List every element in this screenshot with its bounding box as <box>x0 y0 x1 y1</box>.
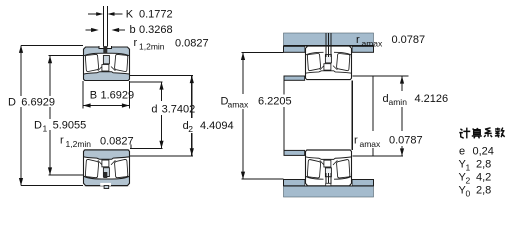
housing band top <box>284 33 374 46</box>
dimension K <box>88 13 97 15</box>
shaft shoulder face line <box>283 76 285 95</box>
leader tick to corner <box>130 145 132 150</box>
svg-text:d: d <box>151 104 157 116</box>
svg-text:0,24: 0,24 <box>473 146 494 158</box>
svg-text:1: 1 <box>43 123 48 133</box>
shaft shoulder top <box>284 76 305 80</box>
dimension d leader <box>130 81 163 83</box>
svg-text:6.6929: 6.6929 <box>21 97 55 109</box>
dimension b <box>86 29 93 31</box>
系 <box>484 128 492 137</box>
svg-text:4.2126: 4.2126 <box>415 93 449 105</box>
svg-text:amax: amax <box>228 100 250 110</box>
svg-text:e: e <box>459 146 465 158</box>
svg-text:1: 1 <box>466 163 471 173</box>
svg-text:r: r <box>134 37 138 49</box>
lubrication lines bottom (right) <box>325 173 327 184</box>
svg-text:amax: amax <box>360 139 382 149</box>
right bearing top half (outline style) <box>306 46 352 80</box>
bearing top half (left drawing) <box>83 46 130 81</box>
svg-text:2,8: 2,8 <box>476 185 491 197</box>
svg-text:D: D <box>8 97 16 109</box>
svg-text:amin: amin <box>389 97 408 107</box>
svg-text:amax: amax <box>362 39 384 49</box>
bottom groove notch and tab <box>100 183 111 186</box>
right edge vertical line <box>372 76 374 131</box>
lubrication hole dark bar top <box>103 46 107 53</box>
bearing bottom half (left drawing) <box>83 149 130 186</box>
bearing right face extension line <box>351 81 353 151</box>
svg-text:0.0827: 0.0827 <box>100 136 134 148</box>
housing seat lines (redrawn over bearing) <box>284 45 374 47</box>
svg-text:r: r <box>60 135 64 147</box>
dimension D1 leader <box>49 55 84 57</box>
svg-text:4,2: 4,2 <box>476 172 491 184</box>
housing seat line top <box>284 45 374 47</box>
dimension Damax <box>241 51 283 53</box>
svg-text:2: 2 <box>188 124 193 134</box>
lubrication hole lines top <box>102 6 104 47</box>
dimension d2 leader <box>130 75 193 77</box>
svg-text:0.3268: 0.3268 <box>139 24 173 36</box>
svg-text:5.9055: 5.9055 <box>53 119 87 131</box>
svg-text:6.2205: 6.2205 <box>258 96 292 108</box>
housing shoulder blocks top <box>284 46 306 52</box>
lubrication groove b at top surface <box>99 46 111 48</box>
dimension damin <box>353 75 409 77</box>
svg-text:1,2min: 1,2min <box>66 139 92 149</box>
svg-text:1.6929: 1.6929 <box>101 90 135 102</box>
lubrication lines (right) <box>325 33 327 57</box>
svg-text:1,2min: 1,2min <box>139 42 165 52</box>
svg-text:D: D <box>34 119 42 131</box>
svg-text:0.0787: 0.0787 <box>389 135 423 147</box>
svg-text:r: r <box>356 34 360 46</box>
svg-text:b: b <box>130 24 136 36</box>
dimension B <box>82 81 84 109</box>
svg-text:2: 2 <box>466 176 471 186</box>
svg-text:B: B <box>90 90 97 102</box>
label r amax bottom <box>354 133 385 148</box>
lubrication hole dark bar bottom <box>103 172 107 178</box>
svg-text:0.0787: 0.0787 <box>392 34 426 46</box>
housing seat line bottom <box>284 185 374 187</box>
svg-text:3.7402: 3.7402 <box>162 104 196 116</box>
dimension D leader <box>21 44 83 46</box>
groove notch bottom (right) <box>326 183 331 186</box>
数 <box>495 128 505 138</box>
svg-text:r: r <box>354 135 358 147</box>
计 <box>459 128 470 139</box>
svg-text:2,8: 2,8 <box>476 159 491 171</box>
算 <box>472 128 482 138</box>
svg-text:0.0827: 0.0827 <box>175 38 209 50</box>
heading 计算系数 drawn strokes <box>459 128 504 139</box>
shaft shoulder bottom <box>284 150 305 155</box>
svg-text:K: K <box>126 8 134 20</box>
svg-text:0.1772: 0.1772 <box>139 8 173 20</box>
svg-text:0: 0 <box>466 189 471 199</box>
housing shoulder blocks bottom <box>284 180 306 186</box>
right bearing bottom half (outline style) <box>306 151 352 186</box>
housing band bottom <box>284 186 374 197</box>
svg-text:4.4094: 4.4094 <box>200 120 234 132</box>
